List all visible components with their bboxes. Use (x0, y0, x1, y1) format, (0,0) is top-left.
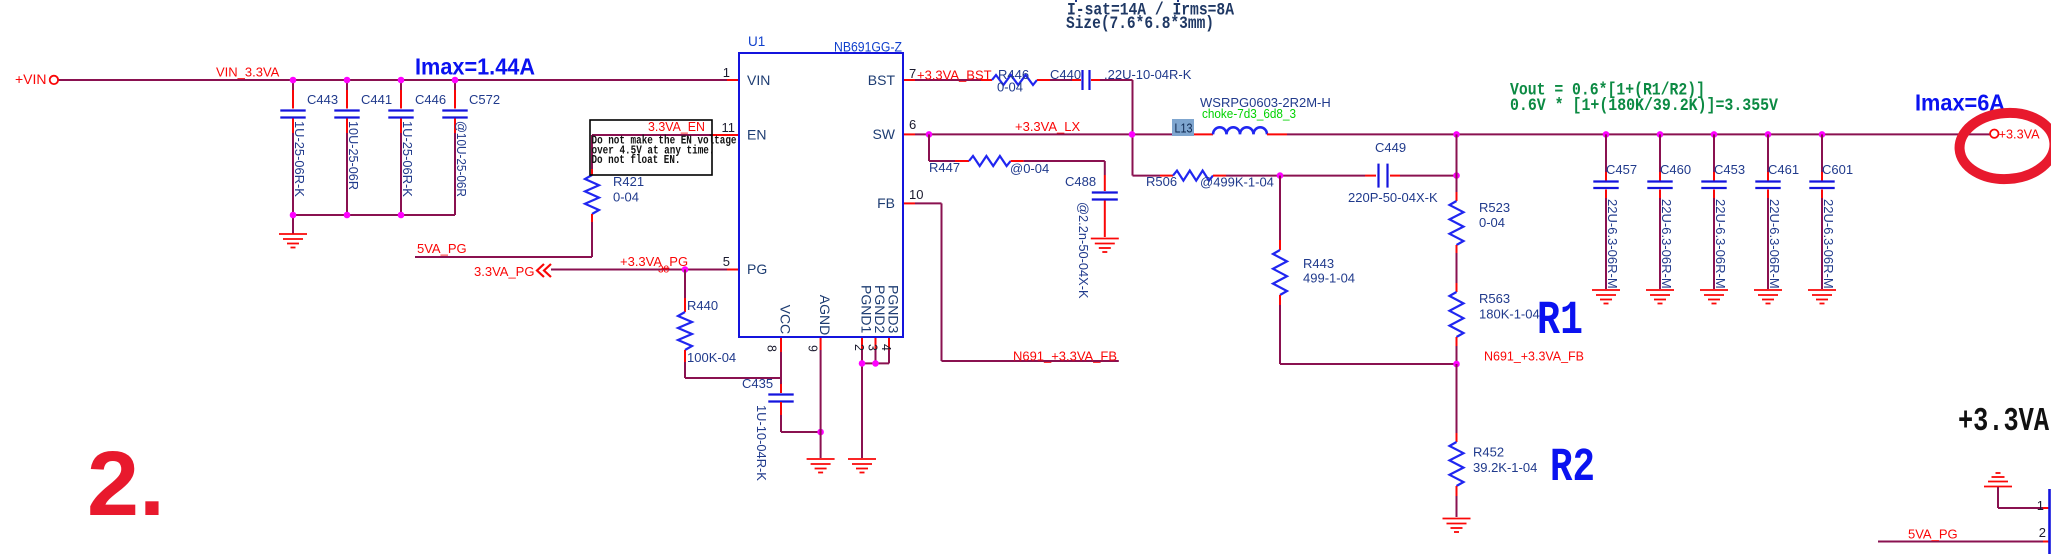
svg-text:0-04: 0-04 (997, 80, 1023, 95)
svg-text:8: 8 (765, 345, 780, 352)
svg-text:C601: C601 (1822, 162, 1853, 177)
svg-text:2.: 2. (87, 433, 165, 535)
svg-text:.22U-10-04R-K: .22U-10-04R-K (1104, 67, 1192, 82)
svg-text:+3.3VA_BST: +3.3VA_BST (917, 68, 992, 83)
svg-text:1: 1 (723, 65, 730, 80)
svg-text:2: 2 (852, 344, 867, 351)
svg-text:SW: SW (872, 126, 895, 142)
svg-text:11: 11 (722, 120, 736, 135)
svg-text:22U-6.3-06R-M: 22U-6.3-06R-M (1605, 199, 1620, 289)
svg-text:+VIN: +VIN (15, 71, 47, 87)
svg-text:R506: R506 (1146, 174, 1177, 189)
svg-text:EN: EN (747, 127, 766, 143)
svg-text:PGND3: PGND3 (886, 285, 902, 333)
svg-text:+3.3VA_PG: +3.3VA_PG (620, 254, 688, 269)
svg-text:22U-6.3-06R-M: 22U-6.3-06R-M (1713, 199, 1728, 289)
svg-text:22U-6.3-06R-M: 22U-6.3-06R-M (1659, 199, 1674, 289)
svg-text:5: 5 (723, 254, 730, 269)
svg-text:+3.3VA: +3.3VA (1958, 404, 2050, 441)
svg-text:choke-7d3_6d8_3: choke-7d3_6d8_3 (1202, 106, 1296, 121)
svg-text:1U-10-04R-K: 1U-10-04R-K (754, 405, 769, 481)
svg-text:3.3VA_EN: 3.3VA_EN (648, 119, 705, 134)
svg-text:4: 4 (879, 344, 894, 351)
svg-text:R563: R563 (1479, 291, 1510, 306)
svg-text:2: 2 (2039, 525, 2046, 540)
svg-text:N691_+3.3VA_FB: N691_+3.3VA_FB (1013, 349, 1117, 364)
svg-text:AGND: AGND (817, 295, 833, 335)
svg-text:C440: C440 (1050, 67, 1081, 82)
svg-text:3: 3 (866, 344, 881, 351)
svg-text:10U-25-06R: 10U-25-06R (346, 121, 361, 190)
svg-text:VIN: VIN (747, 72, 770, 88)
svg-text:VCC: VCC (778, 305, 794, 335)
svg-text:@2.2n-50-04X-K: @2.2n-50-04X-K (1076, 202, 1091, 299)
svg-text:FB: FB (877, 195, 895, 211)
svg-text:C457: C457 (1606, 162, 1637, 177)
svg-text:C572: C572 (469, 92, 500, 107)
svg-text:220P-50-04X-K: 220P-50-04X-K (1348, 190, 1438, 205)
svg-text:0-04: 0-04 (613, 190, 639, 205)
svg-text:22U-6.3-06R-M: 22U-6.3-06R-M (1821, 199, 1836, 289)
svg-text:9: 9 (806, 345, 821, 352)
svg-text:1: 1 (2037, 498, 2044, 513)
svg-text:Imax=1.44A: Imax=1.44A (415, 54, 535, 80)
svg-text:N691_+3.3VA_FB: N691_+3.3VA_FB (1484, 349, 1584, 364)
svg-text:C449: C449 (1375, 140, 1406, 155)
svg-text:R443: R443 (1303, 256, 1334, 271)
svg-text:L13: L13 (1175, 121, 1193, 136)
svg-text:6: 6 (909, 117, 916, 132)
svg-text:@10U-25-06R: @10U-25-06R (454, 121, 469, 197)
svg-text:R452: R452 (1473, 445, 1504, 460)
svg-text:R447: R447 (929, 160, 960, 175)
svg-text:PG: PG (747, 261, 767, 277)
svg-text:C453: C453 (1714, 162, 1745, 177)
svg-text:C488: C488 (1065, 174, 1096, 189)
svg-text:3.3VA_PG: 3.3VA_PG (474, 264, 534, 279)
svg-text:R440: R440 (687, 298, 718, 313)
svg-text:5VA_PG: 5VA_PG (417, 241, 467, 256)
svg-text:R2: R2 (1550, 441, 1595, 495)
svg-text:@0-04: @0-04 (1010, 161, 1049, 176)
svg-text:C443: C443 (307, 92, 338, 107)
svg-text:R523: R523 (1479, 200, 1510, 215)
svg-text:C460: C460 (1660, 162, 1691, 177)
svg-text:Size(7.6*6.8*3mm): Size(7.6*6.8*3mm) (1066, 13, 1214, 33)
svg-text:22U-6.3-06R-M: 22U-6.3-06R-M (1767, 199, 1782, 289)
svg-text:U1: U1 (748, 34, 765, 49)
svg-text:1U-25-06R-K: 1U-25-06R-K (292, 121, 307, 197)
svg-text:R1: R1 (1537, 294, 1583, 348)
svg-text:38: 38 (658, 265, 670, 276)
svg-text:NB691GG-Z: NB691GG-Z (834, 40, 902, 55)
svg-text:C461: C461 (1768, 162, 1799, 177)
svg-text:VIN_3.3VA: VIN_3.3VA (216, 65, 280, 80)
svg-text:180K-1-04: 180K-1-04 (1479, 307, 1540, 322)
svg-text:499-1-04: 499-1-04 (1303, 271, 1355, 286)
svg-text:+3.3VA_LX: +3.3VA_LX (1015, 119, 1081, 134)
svg-text:R421: R421 (613, 174, 644, 189)
svg-text:C441: C441 (361, 92, 392, 107)
svg-text:BST: BST (868, 72, 896, 88)
svg-text:@499K-1-04: @499K-1-04 (1200, 175, 1274, 190)
svg-text:5VA_PG: 5VA_PG (1908, 527, 1958, 542)
svg-text:100K-04: 100K-04 (687, 350, 736, 365)
svg-text:C446: C446 (415, 92, 446, 107)
svg-text:Do not float EN.: Do not float EN. (592, 154, 681, 167)
svg-text:39.2K-1-04: 39.2K-1-04 (1473, 460, 1537, 475)
svg-text:1U-25-06R-K: 1U-25-06R-K (400, 121, 415, 197)
svg-text:0-04: 0-04 (1479, 215, 1505, 230)
svg-text:C435: C435 (742, 376, 773, 391)
svg-text:10: 10 (909, 187, 923, 202)
svg-text:0.6V * [1+(180K/39.2K)]=3.355V: 0.6V * [1+(180K/39.2K)]=3.355V (1510, 95, 1778, 115)
svg-text:+3.3VA: +3.3VA (1999, 127, 2040, 142)
svg-text:7: 7 (909, 66, 916, 81)
